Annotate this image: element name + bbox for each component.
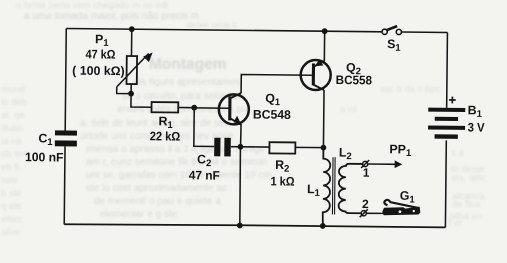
svg-text:ob ted: ob ted	[1, 149, 27, 160]
wire Q2 emitter to top rail	[323, 31, 325, 61]
wire P1 to R1	[131, 94, 152, 108]
wire emitter node to R2	[240, 146, 269, 148]
capacitor C1	[55, 130, 77, 146]
label 47 kOhm	[85, 47, 115, 61]
switch S1	[382, 26, 401, 35]
label L2	[339, 146, 352, 163]
wire R2 to L1 node	[295, 146, 323, 148]
wire Q1 emitter down	[240, 125, 243, 147]
inductor L2 secondary	[339, 164, 363, 214]
label 1	[363, 166, 370, 180]
transformer core	[331, 157, 334, 214]
label P1	[95, 32, 109, 49]
wire top rail left segment	[66, 28, 382, 31]
svg-text:st na: st na	[1, 136, 22, 147]
alligator clip G1	[382, 200, 420, 216]
svg-text:muret: muret	[1, 84, 26, 95]
svg-text:endes estes componentes pur: endes estes componentes pur	[117, 104, 252, 115]
wire C2 to emitter node	[231, 146, 241, 148]
wire Q2 collector down	[322, 90, 325, 148]
svg-text:q els: q els	[1, 201, 21, 212]
label Q2	[346, 61, 361, 78]
label G1	[400, 189, 416, 206]
svg-text:liste: liste	[1, 175, 18, 186]
svg-text:BC548: BC548	[253, 107, 291, 121]
svg-text:1: 1	[363, 166, 370, 180]
label C1	[38, 131, 53, 148]
label 100 nF	[25, 150, 64, 164]
transistor Q2	[301, 59, 331, 90]
svg-text:ssc b ds it bpc: ssc b ds it bpc	[380, 84, 440, 95]
capacitor C2	[214, 138, 231, 157]
svg-text:Montagem: Montagem	[149, 56, 227, 73]
label R2	[275, 158, 289, 175]
arrow PP1	[368, 160, 402, 168]
svg-text:ilham: ilham	[1, 123, 24, 134]
terminal 1	[361, 160, 369, 168]
svg-text:de fica: de fica	[452, 199, 481, 210]
svg-text:47 kΩ: 47 kΩ	[85, 47, 115, 61]
wire top rail right segment	[401, 31, 447, 33]
wire bottom rail	[64, 223, 445, 228]
wire base node down to C2	[194, 108, 215, 147]
battery plus sign	[449, 97, 456, 104]
svg-text:n brnta perto vem chegado m so: n brnta perto vem chegado m so edi	[16, 0, 168, 11]
node Q1 emitter bottom	[237, 223, 243, 229]
svg-text:( 100 kΩ): ( 100 kΩ)	[72, 64, 125, 79]
potentiometer P1	[126, 56, 137, 84]
svg-text:de mementi o pau e quiete a: de mementi o pau e quiete a	[94, 196, 221, 207]
svg-text:a uma tomada maior, pois não p: a uma tomada maior, pois não precis m	[24, 11, 199, 22]
label C2	[197, 152, 211, 169]
node P1 bottom	[128, 91, 134, 97]
wire Q1 collector up and to Q2 base	[241, 74, 312, 93]
resistor R1	[151, 102, 178, 112]
label L1	[307, 182, 321, 199]
node L1 top	[320, 145, 326, 151]
label B1	[468, 103, 483, 120]
P1 wiper tie	[117, 87, 131, 94]
wire P1 bottom lead	[130, 84, 132, 94]
node L1 bottom	[320, 223, 326, 229]
wire Q1 emitter to bottom rail	[240, 147, 241, 226]
svg-text:3 V: 3 V	[468, 121, 486, 135]
battery B1	[428, 108, 465, 139]
svg-text:ola figura apresentamos: ola figura apresentamos	[133, 77, 240, 88]
svg-text:a. sele de leunt antes, alre d: a. sele de leunt antes, alre de seu	[80, 118, 230, 129]
terminal 2	[360, 209, 368, 217]
label R1	[158, 114, 173, 131]
node: top rail to P1	[129, 26, 135, 32]
svg-text:2: 2	[362, 197, 369, 211]
node emitter	[238, 144, 244, 150]
svg-text:ettes: ettes	[1, 214, 22, 225]
svg-text:sta, dific: sta, dific	[451, 173, 486, 184]
label 3 V	[468, 121, 486, 135]
label BC558	[336, 73, 373, 87]
svg-text:at. qe: at. qe	[1, 110, 25, 121]
svg-text:47 nF: 47 nF	[189, 168, 221, 182]
label 1 kOhm	[271, 174, 295, 188]
label 47 nF	[189, 168, 221, 182]
wire left rail lower	[63, 146, 66, 224]
node top rail Q2	[322, 28, 328, 34]
inductor L1 primary	[323, 148, 331, 226]
svg-text:lo deb: lo deb	[1, 97, 27, 108]
wire base node to Q1	[194, 107, 230, 109]
label 2	[362, 197, 369, 211]
svg-text:BC558: BC558	[336, 73, 373, 87]
svg-text:eb 5.: eb 5.	[1, 162, 22, 173]
label 22 kOhm	[150, 129, 181, 143]
svg-text:1 kΩ: 1 kΩ	[271, 174, 295, 188]
svg-text:elementar e g ste: elementar e g ste	[100, 209, 178, 220]
label S1	[387, 37, 401, 54]
label BC548	[253, 107, 291, 121]
wire right rail lower	[444, 140, 447, 227]
svg-text:100 nF: 100 nF	[25, 150, 64, 164]
svg-text:ste lo cost aproximadamente ac: ste lo cost aproximadamente ac	[86, 183, 227, 194]
P1 arrow	[117, 52, 153, 87]
svg-text:s a: s a	[451, 148, 464, 159]
svg-text:slive: slive	[1, 227, 20, 238]
svg-text:b ste: b ste	[1, 188, 22, 199]
label PP1	[389, 142, 412, 159]
transistor Q1	[219, 93, 249, 125]
label Q1	[265, 91, 281, 108]
svg-text:t er: t er	[449, 218, 463, 229]
wire terminal 2 to clip	[366, 212, 383, 214]
wire P1 top lead	[130, 29, 132, 56]
svg-text:o rd: o rd	[340, 104, 356, 115]
svg-text:22 kΩ: 22 kΩ	[150, 129, 181, 143]
wire right rail upper	[446, 32, 449, 107]
label ( 100 kOhm)	[72, 64, 125, 79]
svg-text:unt se, garrafas com 10 de rep: unt se, garrafas com 10 de repente 10 cm	[86, 170, 272, 181]
wire left rail upper	[65, 28, 66, 130]
node base	[191, 105, 197, 111]
resistor R2	[269, 142, 295, 153]
wire R1 to base node	[178, 107, 194, 109]
